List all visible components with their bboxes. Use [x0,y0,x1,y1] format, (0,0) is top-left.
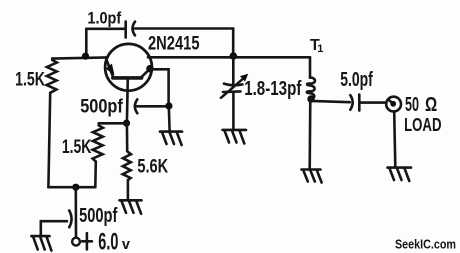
wire variable capacitor to ground [232,92,235,130]
wire 5.6K down to ground [127,180,130,200]
node junction dot bottom rail [72,184,79,191]
wire load connector down to ground [394,111,395,167]
variable capacitor arrowhead [240,74,248,82]
node junction dot 500pf/ground [165,102,172,109]
wire 5.0pf to load connector [361,101,387,104]
svg-text:5.6K: 5.6K [137,156,168,177]
svg-text:6.0: 6.0 [98,228,118,253]
svg-text:2N2415: 2N2415 [148,33,200,54]
transistor emitter lead [106,60,113,78]
capacitor 1.0pf left straight plate [124,22,127,38]
transistor base bar [113,76,142,80]
ground under load [388,168,412,181]
wire 1.5K down to bottom rail [48,93,50,187]
inductor T1 coil [307,78,315,99]
wire 1.5K lower to bottom rail [94,162,97,188]
node junction dot base/bias [123,120,130,127]
wire T1 down to ground [308,99,311,169]
transistor emitter arrowhead (PNP, pointing to base bar) [106,64,115,76]
svg-text:v: v [122,237,130,253]
capacitor 500pf (bottom) curved plate [69,211,71,228]
svg-text:SeekIC.com: SeekIC.com [395,237,456,252]
ground under bypass node [160,132,182,145]
wire top rail from 1.0pf to right corner [135,27,234,30]
svg-text:500pf: 500pf [80,96,123,117]
resistor R 5.6K [123,123,131,180]
wire emitter to 1.5K top [52,57,107,58]
resistor R 1.5K (upper left) [47,59,57,93]
wire collector stub right then down to bypass node [150,69,169,106]
svg-text:1.0pf: 1.0pf [87,10,121,28]
svg-text:500pf: 500pf [79,204,117,227]
ground under T1 [302,170,322,183]
capacitor 1.0pf right curved plate [133,22,136,36]
wire right corner drop to collector rail [232,29,235,56]
transistor Q1 2N2415 circle [105,44,152,91]
wire collector rail to T1 [148,56,310,59]
wire T1 tap to 5.0pf [311,101,350,102]
svg-text:1.5K: 1.5K [62,137,92,158]
wire top-left from 1.0pf drop to capacitor left plate [86,27,124,30]
wire variable capacitor top segment [232,56,235,84]
svg-text:1.8-13pf: 1.8-13pf [244,78,301,100]
wire T1 top segment [309,57,312,77]
svg-text:LOAD: LOAD [404,115,441,135]
ground under variable capacitor [223,130,247,144]
svg-text:Ω: Ω [425,94,437,116]
terminal +6.0v circle [72,238,80,246]
load connector tick [388,100,392,103]
wire vertical drop from 1.0pf left to emitter node [85,29,88,56]
ground bottom-left [31,236,51,250]
wire bypass node down to ground [168,106,171,131]
variable capacitor arrow [221,78,244,98]
wire 500pf bottom stub to ground [41,220,67,223]
load connector center dot [390,101,396,107]
node junction dot at variable capacitor top [230,52,238,60]
transistor collector lead [141,69,150,78]
variable capacitor bottom plate [223,90,241,93]
resistor R 1.5K (lower) [93,123,103,161]
svg-text:5.0pf: 5.0pf [340,69,373,91]
wire bottom rail node down to +6.0v terminal [75,187,78,238]
transistor base line down to bias node [126,78,130,123]
node junction dot emitter/1.0pf [82,53,89,60]
wire 500pf top to bypass node [137,105,169,108]
wire bias node to 1.5K lower top [99,122,127,125]
svg-text:50: 50 [405,93,419,116]
svg-text:1: 1 [317,43,323,55]
svg-text:1.5K: 1.5K [15,70,45,91]
ground under 5.6K [120,200,142,214]
node junction dot T1 output tap [307,95,314,102]
load connector circle [386,97,401,112]
label + sign [82,233,92,249]
capacitor 500pf (top) curved plate [135,99,137,113]
capacitor 5.0pf curved plate [350,95,352,110]
node collector blob dot [146,65,154,73]
variable capacitor 1.8-13pf top plate [224,84,243,86]
wire bottom rail [48,186,95,189]
wire ground drop bottom-left [39,221,42,235]
capacitor 5.0pf straight plate [358,95,361,111]
